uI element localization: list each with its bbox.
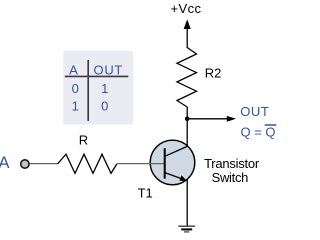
- emitter arrow head: [180, 175, 188, 181]
- svg-text:A: A: [0, 154, 10, 172]
- svg-text:R2: R2: [205, 65, 222, 80]
- wire R2 to collector: [186, 107, 188, 147]
- svg-text:OUT: OUT: [94, 63, 124, 78]
- Vcc arrow wire: [186, 28, 188, 49]
- svg-text:Transistor: Transistor: [204, 156, 260, 171]
- wire terminal to resistor R: [30, 163, 58, 165]
- Vcc arrow head: [184, 19, 191, 29]
- truth table header underline: [65, 75, 129, 77]
- svg-text:R: R: [79, 132, 88, 147]
- OUT arrow wire: [187, 118, 228, 120]
- svg-text:A: A: [69, 63, 78, 78]
- resistor R2: [177, 48, 197, 108]
- transistor base bar: [164, 148, 166, 178]
- svg-text:Switch: Switch: [212, 170, 249, 185]
- ground bar 3: [184, 231, 189, 233]
- truth table box: [63, 51, 133, 125]
- transistor emitter line: [165, 173, 184, 180]
- input terminal: [21, 160, 29, 168]
- svg-text:0: 0: [72, 81, 79, 96]
- junction dot: [185, 117, 190, 122]
- svg-text:+Vcc: +Vcc: [171, 1, 202, 16]
- svg-text:Q = Q: Q = Q: [241, 125, 276, 140]
- resistor R: [58, 154, 117, 173]
- svg-text:0: 0: [101, 98, 108, 113]
- transistor collector line: [165, 146, 187, 156]
- Qbar overline: [265, 124, 277, 126]
- wire emitter to ground: [186, 180, 188, 226]
- transistor Q1 body: [150, 140, 195, 185]
- svg-text:1: 1: [101, 81, 108, 96]
- OUT arrow head: [227, 116, 236, 122]
- svg-text:OUT: OUT: [240, 104, 269, 119]
- truth table column divider: [87, 60, 89, 121]
- svg-text:1: 1: [72, 98, 79, 113]
- ground bar 1: [178, 225, 195, 227]
- svg-text:T1: T1: [138, 185, 153, 200]
- wire resistor R to base: [117, 163, 165, 165]
- ground bar 2: [181, 228, 192, 230]
